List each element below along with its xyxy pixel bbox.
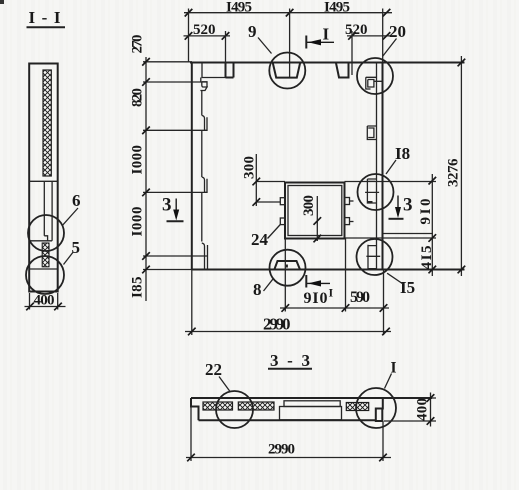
dim 300 left bbox=[255, 154, 257, 206]
svg-text:I000: I000 bbox=[130, 145, 146, 175]
svg-text:300: 300 bbox=[242, 156, 258, 179]
svg-text:520: 520 bbox=[345, 22, 368, 38]
central opening square outer bbox=[285, 183, 345, 239]
hatched insulation strip bbox=[43, 70, 51, 176]
dim 400 bbox=[29, 293, 31, 310]
left inner face line bbox=[201, 91, 203, 242]
svg-text:9I0: 9I0 bbox=[304, 290, 328, 307]
svg-text:2990: 2990 bbox=[263, 315, 291, 334]
top edge bbox=[191, 397, 432, 399]
dim 520 right bbox=[347, 35, 390, 37]
detail circle 20 bbox=[357, 58, 393, 94]
central opening square inner bbox=[288, 186, 342, 236]
keyway groove (circle 9 detail) bbox=[273, 63, 301, 78]
hatched strip 1 bbox=[203, 402, 233, 410]
hatched strip 3 bbox=[346, 403, 368, 411]
dim 2990 plan bbox=[185, 331, 391, 333]
svg-text:520: 520 bbox=[193, 22, 216, 38]
dim 300 inner bbox=[316, 196, 318, 241]
svg-text:I: I bbox=[329, 286, 334, 300]
hatched strip 2 bbox=[238, 402, 274, 410]
svg-text:I - I: I - I bbox=[29, 8, 61, 27]
left extension to 2990 bbox=[190, 407, 192, 462]
right notch detail 20 bbox=[366, 77, 382, 89]
detail circle I bbox=[356, 388, 396, 428]
right notch detail 18 bbox=[365, 179, 379, 203]
dim line 1495+1495 bbox=[184, 12, 392, 14]
svg-text:I85: I85 bbox=[130, 277, 146, 299]
svg-text:24: 24 bbox=[251, 230, 269, 249]
detail circle 5 bbox=[26, 256, 64, 294]
left dimension column bbox=[145, 57, 147, 301]
notch step bbox=[29, 236, 52, 241]
svg-text:I5: I5 bbox=[400, 278, 415, 297]
detail circle 6 bbox=[28, 215, 64, 251]
tab right 2 bbox=[345, 218, 350, 225]
svg-text:4I5: 4I5 bbox=[419, 246, 435, 270]
left end profile bbox=[191, 398, 199, 420]
svg-text:270: 270 bbox=[130, 35, 146, 54]
panel left edge bbox=[191, 63, 193, 270]
svg-text:20: 20 bbox=[389, 22, 406, 41]
inner division line bbox=[29, 180, 58, 182]
right extension to 2990 bbox=[382, 421, 384, 461]
svg-text:400: 400 bbox=[415, 398, 431, 421]
panel bottom edge bbox=[192, 269, 465, 271]
right notch mid bbox=[367, 126, 376, 140]
extension lines top bbox=[188, 9, 190, 63]
extension to left tab bbox=[256, 201, 280, 203]
left notch 1 bbox=[200, 78, 207, 92]
left notch 3 bbox=[202, 177, 207, 192]
wire inner core left bbox=[43, 181, 45, 236]
tooth B bbox=[336, 63, 349, 78]
svg-text:3: 3 bbox=[403, 195, 413, 216]
dim 2990 section bbox=[186, 457, 391, 459]
lifting key trapezoid in circle 8 bbox=[274, 261, 300, 269]
bottom extension lines bbox=[284, 239, 286, 312]
tab left 2 bbox=[280, 218, 285, 225]
detail circle 9 bbox=[269, 53, 305, 89]
svg-text:400: 400 bbox=[34, 293, 55, 309]
panel I-I outline bbox=[29, 64, 58, 292]
tooth A bbox=[226, 63, 234, 78]
dim 3276 right bbox=[460, 56, 462, 276]
detail circle 18 bbox=[358, 174, 394, 210]
top-left rebate bbox=[202, 63, 226, 78]
svg-text:9I0: 9I0 bbox=[418, 199, 434, 225]
panel right edge bbox=[382, 63, 384, 270]
dim 520 left bbox=[184, 35, 231, 37]
svg-text:5: 5 bbox=[72, 238, 81, 257]
svg-text:2990: 2990 bbox=[268, 442, 295, 458]
right extension lines bbox=[383, 181, 436, 183]
tab left 1 bbox=[280, 198, 285, 205]
svg-text:6: 6 bbox=[72, 191, 81, 210]
wire inner core right bbox=[51, 181, 53, 241]
middle plateau bbox=[284, 401, 340, 407]
svg-text:3276: 3276 bbox=[446, 158, 462, 187]
left notch 2 bbox=[202, 115, 207, 130]
panel top edge bbox=[190, 62, 465, 64]
left notch 4 / corner step bbox=[202, 243, 208, 270]
svg-text:22: 22 bbox=[205, 360, 222, 379]
detail circle 22 bbox=[216, 391, 253, 428]
svg-text:I495: I495 bbox=[226, 0, 252, 16]
svg-text:300: 300 bbox=[301, 195, 317, 216]
dim 400 right bbox=[384, 397, 436, 399]
extension stubs to 2990 bbox=[191, 270, 193, 336]
svg-text:3 - 3: 3 - 3 bbox=[270, 351, 310, 370]
svg-text:3: 3 bbox=[162, 195, 172, 216]
detail circle 15 bbox=[357, 239, 393, 275]
middle block bbox=[280, 407, 342, 420]
right notch detail 15 bbox=[366, 245, 380, 269]
tab right 1 bbox=[345, 198, 350, 205]
svg-text:I8: I8 bbox=[395, 144, 410, 163]
dim 910 right bbox=[431, 174, 433, 276]
svg-text:9: 9 bbox=[248, 22, 257, 41]
bottom edge bbox=[199, 419, 376, 421]
svg-text:I495: I495 bbox=[324, 0, 350, 16]
extension from square top to left dim 300 bbox=[256, 181, 285, 183]
scan corner artifact bbox=[0, 0, 4, 4]
tab stubs bbox=[350, 200, 354, 202]
right end profile bbox=[376, 398, 383, 421]
dim 910 bottom bbox=[280, 307, 389, 309]
right inner face line bbox=[376, 63, 378, 270]
detail circle 8 bbox=[270, 250, 306, 286]
svg-text:820: 820 bbox=[130, 88, 146, 107]
svg-text:I000: I000 bbox=[130, 207, 146, 237]
extension from square top to right edge bbox=[345, 181, 383, 183]
svg-text:I: I bbox=[323, 24, 330, 43]
bottom division line bbox=[29, 268, 58, 270]
svg-text:8: 8 bbox=[253, 280, 262, 299]
small hatched key bbox=[42, 243, 49, 267]
svg-text:590: 590 bbox=[350, 289, 370, 306]
